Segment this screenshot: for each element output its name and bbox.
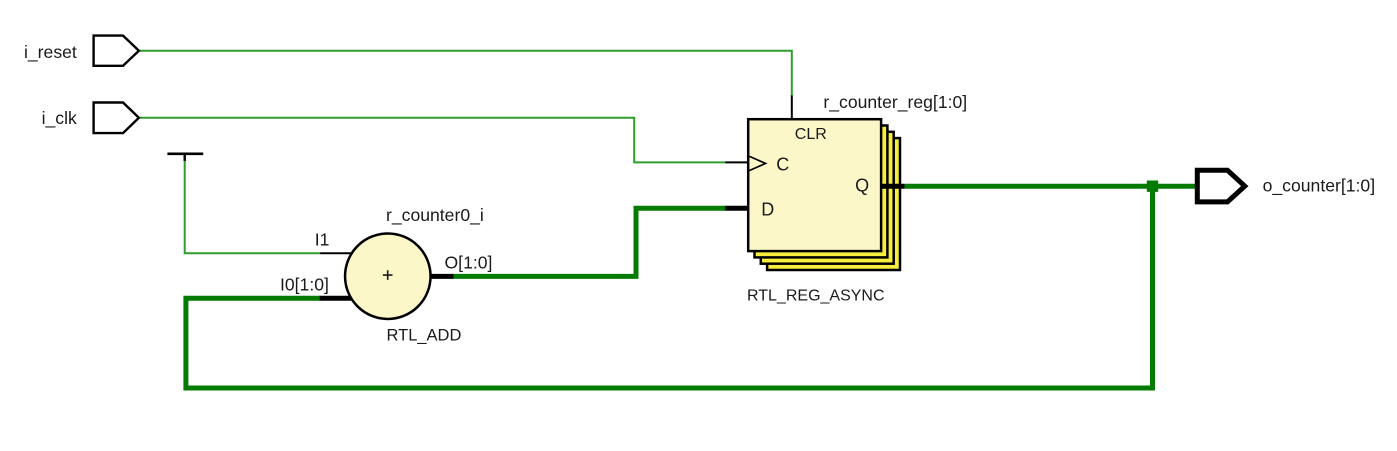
svg-text:I1: I1 [315,230,330,250]
svg-text:CLR: CLR [795,126,827,143]
clock input triangle marker on C pin [750,156,766,170]
pin stub O[1:0] (adder, bus) [430,274,454,279]
pin stub Q (bus, over stack) [881,184,905,189]
junction dot on Q net [1147,181,1158,192]
bus net Q -> o_counter (thick green) [905,184,1197,189]
svg-text:r_counter_reg[1:0]: r_counter_reg[1:0] [823,92,967,113]
svg-text:RTL_ADD: RTL_ADD [387,326,462,344]
constant tie-high symbol (T bar) [167,154,203,161]
svg-text:Q: Q [855,176,869,196]
register stack layer 2 [761,132,894,264]
register stack layer 1 [755,126,888,258]
bus net O[1:0] -> D (thick green) [454,208,726,276]
svg-text:r_counter0_i: r_counter0_i [386,205,484,226]
svg-text:i_reset: i_reset [24,42,77,63]
svg-text:RTL_REG_ASYNC: RTL_REG_ASYNC [747,287,885,304]
svg-text:D: D [761,199,774,219]
pin stub C (clock) [725,161,747,163]
svg-text:I0[1:0]: I0[1:0] [280,274,329,294]
svg-text:O[1:0]: O[1:0] [445,253,493,273]
pin stub I0[1:0] (adder, bus) [320,296,351,301]
svg-text:C: C [776,155,789,175]
pin stub D (bus) [725,206,747,211]
register stack layer 3 (back) [767,138,900,270]
wire net i_reset -> CLR (thin green) [140,51,792,96]
wire net const1 -> I1 (thin green) [185,160,321,254]
svg-text:o_counter[1:0]: o_counter[1:0] [1263,176,1376,197]
input port i_reset (pentagon) [94,36,139,66]
op adder U r_counter0_i (RTL_ADD circle) [345,233,431,319]
wire net i_clk -> C (thin green) [140,118,726,163]
svg-text:i_clk: i_clk [42,108,77,129]
register U r_counter_reg (RTL_REG_ASYNC body) [748,119,881,251]
pin stub CLR (top) [791,96,793,120]
pin stub I1 (adder) [320,252,352,254]
output port o_counter[1:0] (pentagon, thick) [1197,170,1245,202]
plus sign inside adder [383,270,393,280]
bus net feedback Q -> I0 (thick green) [186,186,1153,388]
input port i_clk (pentagon) [94,103,139,134]
